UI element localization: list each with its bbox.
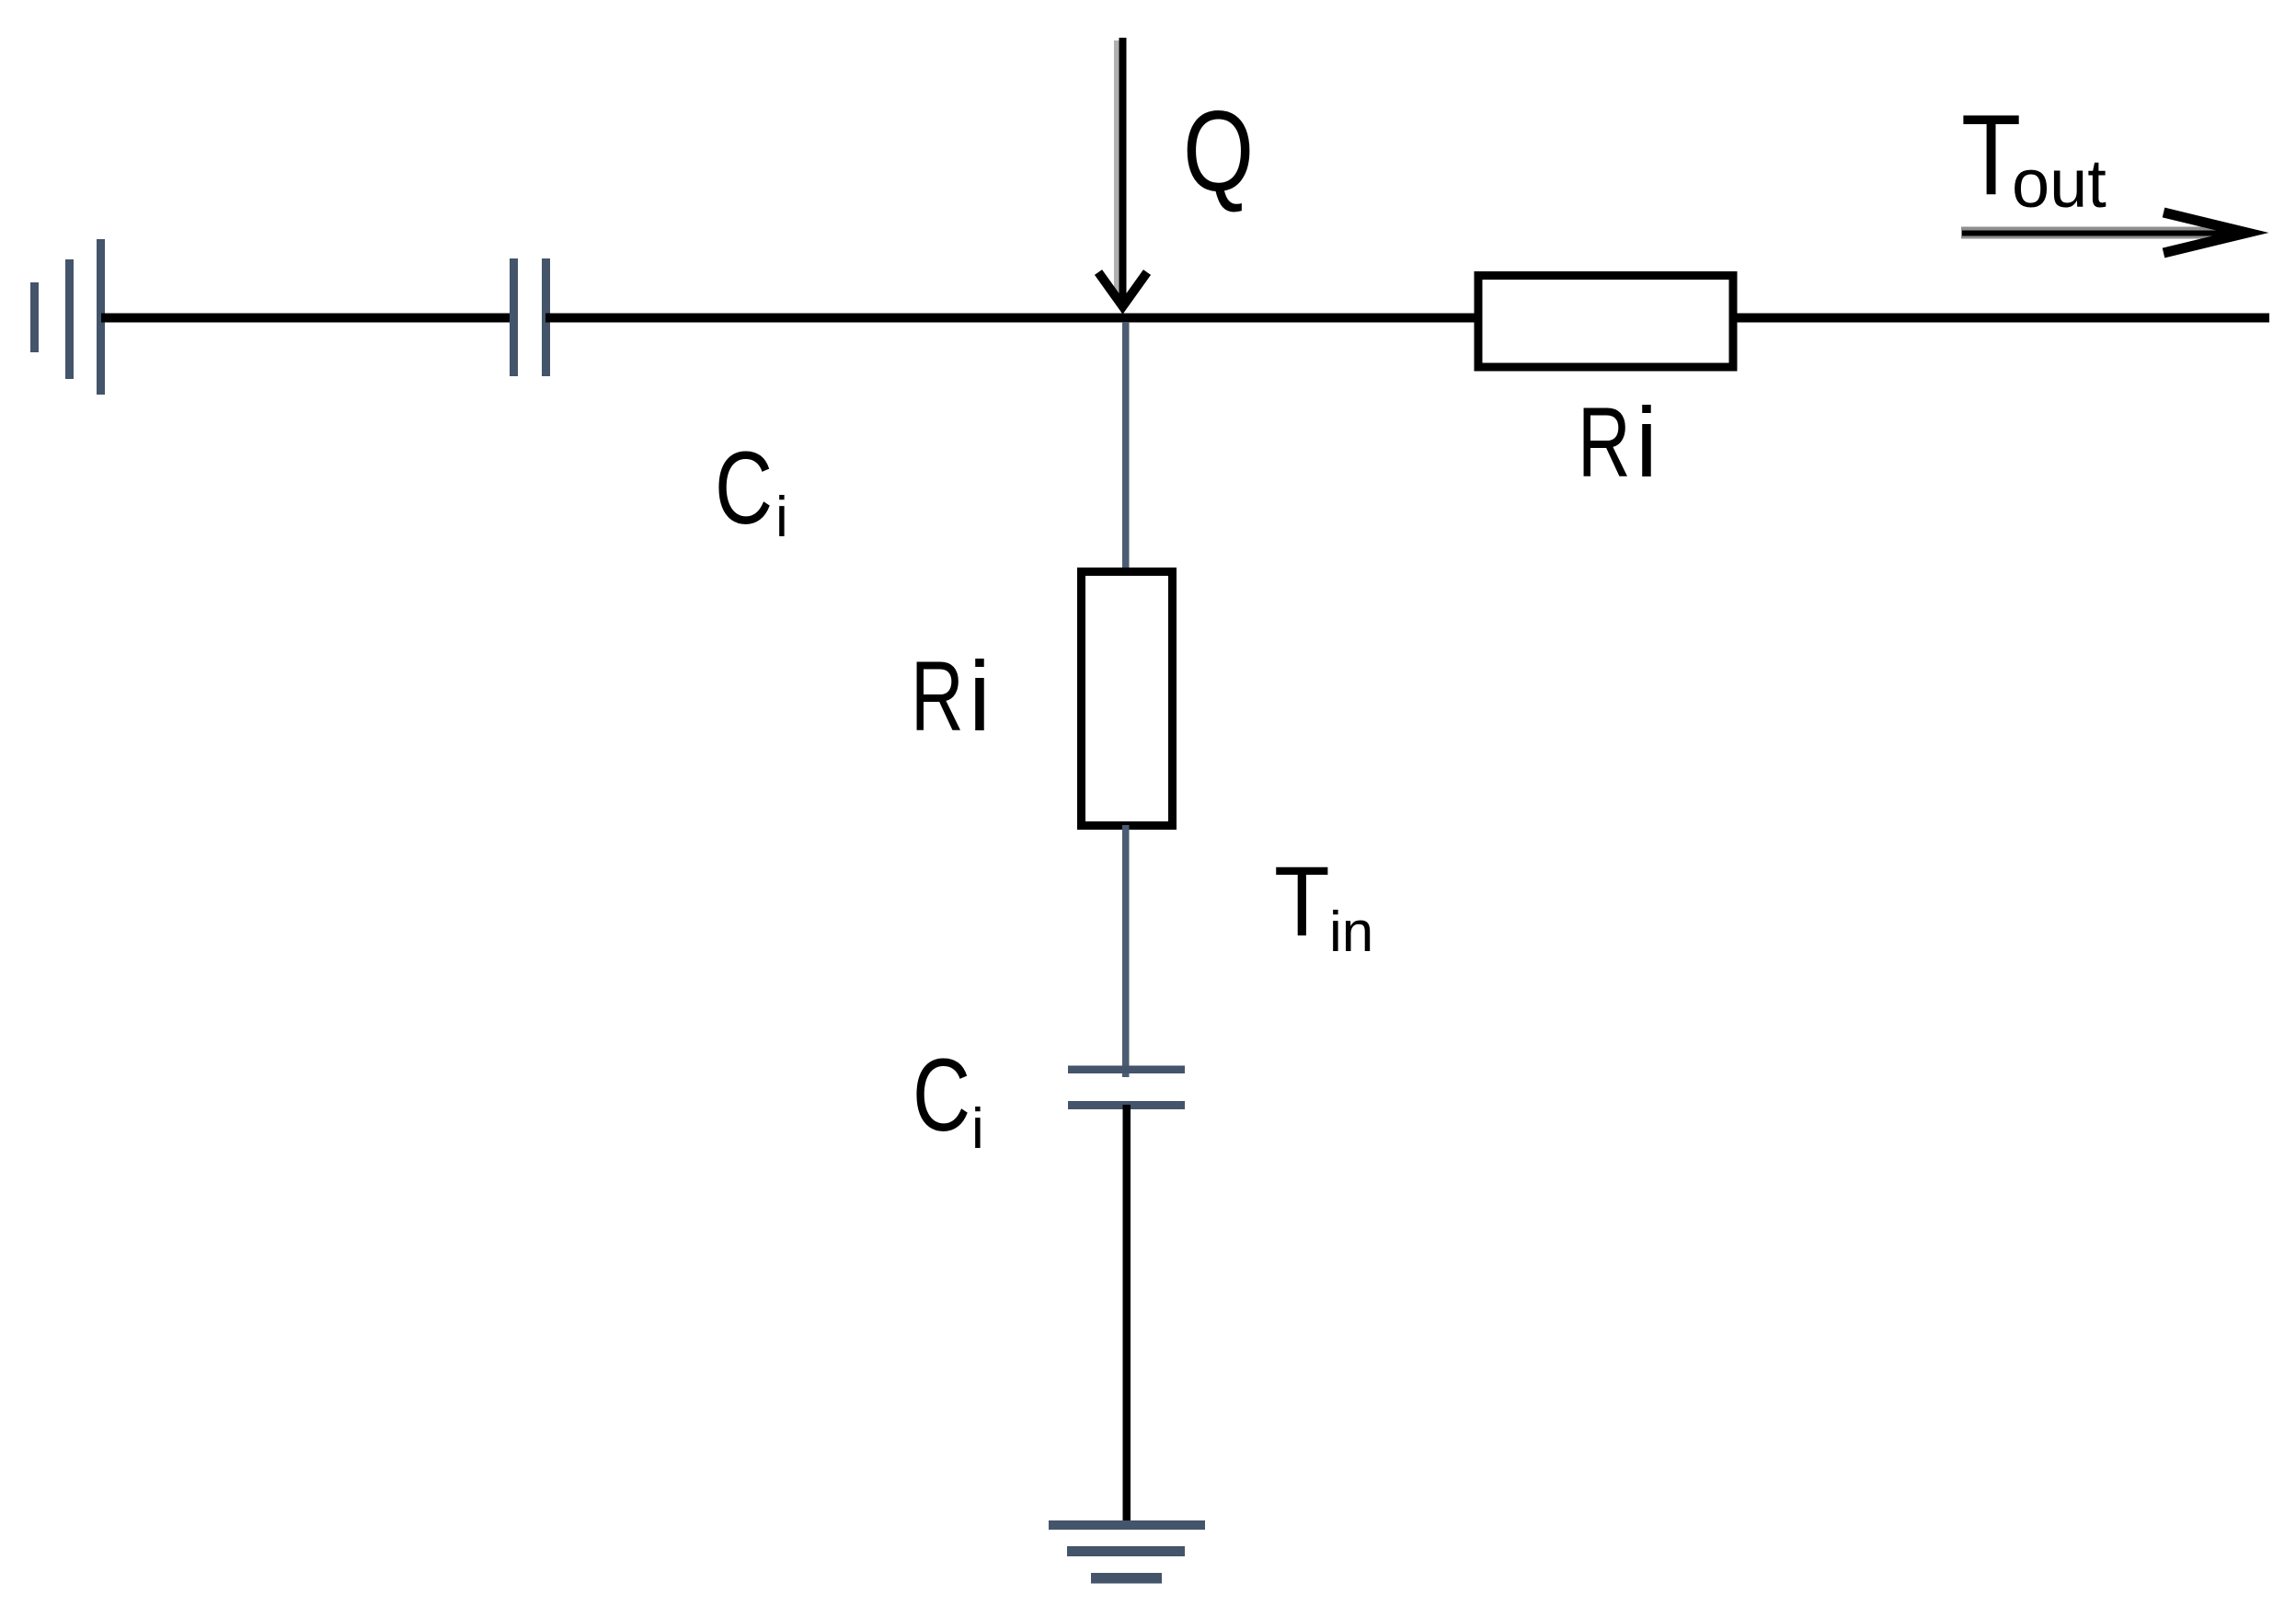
wire (grey stub from vertical resistor down to capacitor Ci)	[1122, 825, 1130, 1077]
label Ri (vertical resistor)	[911, 640, 991, 752]
wire from resistor Ri to right edge	[1733, 314, 2269, 323]
wire from node to resistor Ri (horizontal)	[1126, 314, 1478, 323]
svg-text:i: i	[971, 1097, 984, 1161]
wire from left ground to capacitor Ci	[101, 314, 511, 323]
label Tin (node between resistor and capacitor)	[1274, 845, 1373, 964]
wire (grey stub from node down to vertical resistor)	[1122, 322, 1130, 571]
svg-text:C: C	[913, 1038, 970, 1153]
svg-text:R: R	[1578, 387, 1631, 499]
svg-text:C: C	[715, 431, 773, 546]
svg-text:i: i	[1636, 386, 1658, 498]
resistor Ri (horizontal)	[1478, 276, 1733, 368]
label Tout	[1961, 90, 2107, 222]
label Q	[1183, 86, 1254, 214]
capacitor Ci (bottom, to ground)	[1068, 1066, 1185, 1110]
svg-text:i: i	[969, 640, 991, 751]
wire from capacitor Ci down to ground	[1123, 1105, 1131, 1525]
label Ci (left capacitor)	[715, 431, 788, 549]
svg-text:in: in	[1329, 901, 1373, 964]
svg-text:i: i	[775, 486, 788, 549]
svg-text:T: T	[1274, 845, 1330, 957]
label Ri (horizontal resistor)	[1578, 386, 1658, 499]
svg-text:out: out	[2012, 145, 2107, 222]
label Ci (bottom capacitor)	[913, 1038, 984, 1161]
capacitor Ci (series, on horizontal wire)	[510, 258, 550, 376]
svg-text:Q: Q	[1183, 86, 1254, 214]
resistor Ri (vertical)	[1082, 572, 1173, 826]
heat source arrow Q (into node)	[1098, 38, 1147, 306]
wire from capacitor Ci to node	[545, 314, 1126, 323]
ground GND2 (bottom)	[1049, 1520, 1205, 1584]
svg-text:R: R	[911, 641, 964, 752]
ground GND1 (left, rotated)	[30, 239, 105, 395]
arrow Tout (output heat flow)	[1961, 212, 2247, 253]
